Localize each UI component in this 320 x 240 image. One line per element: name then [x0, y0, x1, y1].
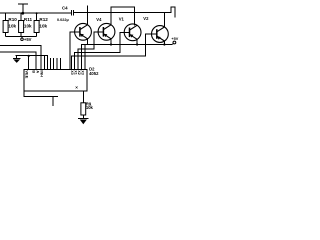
- wire B from left edge to IC: [0, 52, 36, 69]
- svg-text:+5V: +5V: [171, 37, 178, 41]
- svg-text:X1: X1: [73, 70, 77, 74]
- resistor R10 body: [3, 21, 8, 33]
- node rail junction dots: [110, 43, 112, 45]
- svg-text:10k: 10k: [39, 23, 47, 28]
- wire base V1 to IC pin: [75, 32, 129, 69]
- node dot on wire C: [28, 55, 30, 57]
- resistor R12 leads: [36, 13, 38, 20]
- transistor V2 emitter arrow: [157, 36, 161, 39]
- wire VEE pin drop: [28, 56, 30, 70]
- node junction dot at top wire x=22.5: [21, 12, 24, 15]
- svg-text:B: B: [32, 70, 36, 73]
- transistor Q1 body (unlabeled): [75, 23, 92, 40]
- svg-text:R10: R10: [8, 17, 17, 22]
- wire top-right hook to cropped edge: [171, 7, 175, 17]
- wire +5V emitter rail: [82, 44, 172, 46]
- svg-text:A: A: [35, 70, 39, 73]
- resistor R12 body: [34, 21, 39, 33]
- wire collector of first transistor going up: [87, 6, 89, 25]
- svg-text:0.022µ: 0.022µ: [57, 18, 69, 22]
- svg-text:×: ×: [75, 85, 78, 90]
- svg-text:INH: INH: [39, 70, 43, 77]
- transistor V1 emitter arrow: [130, 34, 134, 37]
- IC pin stub 4: [59, 58, 61, 69]
- svg-text:X3: X3: [80, 70, 84, 74]
- wire C branch down at 44.6: [44, 56, 46, 70]
- transistor V2 body: [152, 26, 169, 43]
- svg-text:10k: 10k: [8, 23, 16, 28]
- resistor R11 leads: [20, 13, 22, 20]
- node +5V terminal circle under resistors: [21, 38, 24, 41]
- svg-text:+5V: +5V: [24, 37, 32, 42]
- resistor R10 leads: [5, 13, 7, 20]
- node junction dot at top wire x=36.6: [36, 12, 38, 14]
- ground symbol under R9 bar: [78, 118, 89, 120]
- wire resistor bottom rail: [6, 35, 37, 37]
- IC pin stub 3: [56, 58, 58, 69]
- wire stub going up at x=22.5 with top bar: [22, 4, 24, 13]
- wire collector V2 up to bus: [163, 13, 165, 28]
- resistor R9 body: [81, 103, 86, 115]
- wire emitter V2 to rail: [163, 41, 165, 45]
- IC pin stub 1: [49, 58, 51, 69]
- wire IC bottom left L: [24, 91, 58, 96]
- wire top horizontal bus right of C4: [73, 12, 170, 14]
- ground symbol left triangle: [13, 59, 20, 63]
- wire collector V4 up and over to V1: [111, 7, 134, 25]
- svg-text:VEE: VEE: [25, 70, 30, 78]
- transistor V4 emitter arrow: [104, 34, 108, 37]
- wire emitter V4 to rail: [110, 39, 112, 45]
- svg-text:V1: V1: [119, 17, 125, 22]
- svg-text:R11: R11: [24, 17, 33, 22]
- resistor R9 leads: [82, 91, 84, 103]
- transistor V1 body: [124, 24, 141, 41]
- wire C ground wire to IC: [16, 56, 48, 70]
- svg-text:4052: 4052: [89, 71, 99, 76]
- ground symbol R9 triangle: [80, 120, 87, 125]
- wire emitter V1 to rail: [136, 39, 138, 44]
- IC pin stub 2: [53, 58, 55, 69]
- wire base V4 to IC pin: [78, 32, 103, 70]
- svg-text:V2: V2: [143, 16, 149, 21]
- resistor R11 body: [19, 21, 24, 33]
- transistor V4 body: [98, 23, 115, 40]
- IC D2 4052 multiplexer body: [24, 69, 87, 91]
- wire second rail drop to IC: [84, 45, 86, 70]
- wire bottom stub: [52, 96, 54, 105]
- transistor Q1 emitter arrow: [80, 34, 84, 37]
- node +5V terminal stem under resistors: [21, 36, 23, 38]
- wire A from left edge to IC: [0, 45, 41, 69]
- svg-text:R12: R12: [39, 17, 48, 22]
- wire base of first transistor to IC pin: [70, 32, 80, 70]
- ground symbol left stem: [16, 56, 18, 59]
- svg-text:10k: 10k: [24, 23, 32, 28]
- svg-text:X0: X0: [70, 70, 74, 74]
- svg-text:X2: X2: [77, 70, 81, 74]
- node +5V terminal right: [172, 43, 173, 46]
- wire base V2 to IC pin: [71, 34, 156, 69]
- svg-text:C4: C4: [62, 5, 68, 10]
- capacitor C4 plates: [71, 10, 73, 15]
- svg-text:V4: V4: [96, 17, 102, 22]
- wire top horizontal bus left of C4: [0, 12, 71, 14]
- wire emitter of first transistor down to rail and IC: [82, 39, 88, 70]
- svg-text:10k: 10k: [86, 105, 94, 110]
